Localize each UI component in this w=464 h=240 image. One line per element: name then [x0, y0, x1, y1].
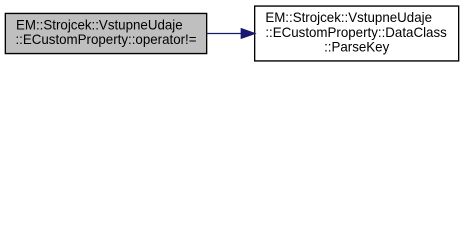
svg-text:EM::Strojcek::VstupneUdaje: EM::Strojcek::VstupneUdaje: [265, 10, 432, 25]
svg-text:::ECustomProperty::DataClass: ::ECustomProperty::DataClass: [265, 25, 447, 40]
svg-text:EM::Strojcek::VstupneUdaje: EM::Strojcek::VstupneUdaje: [16, 17, 183, 32]
svg-text:::ECustomProperty::operator!=: ::ECustomProperty::operator!=: [15, 32, 196, 47]
svg-text:::ParseKey: ::ParseKey: [324, 40, 389, 55]
